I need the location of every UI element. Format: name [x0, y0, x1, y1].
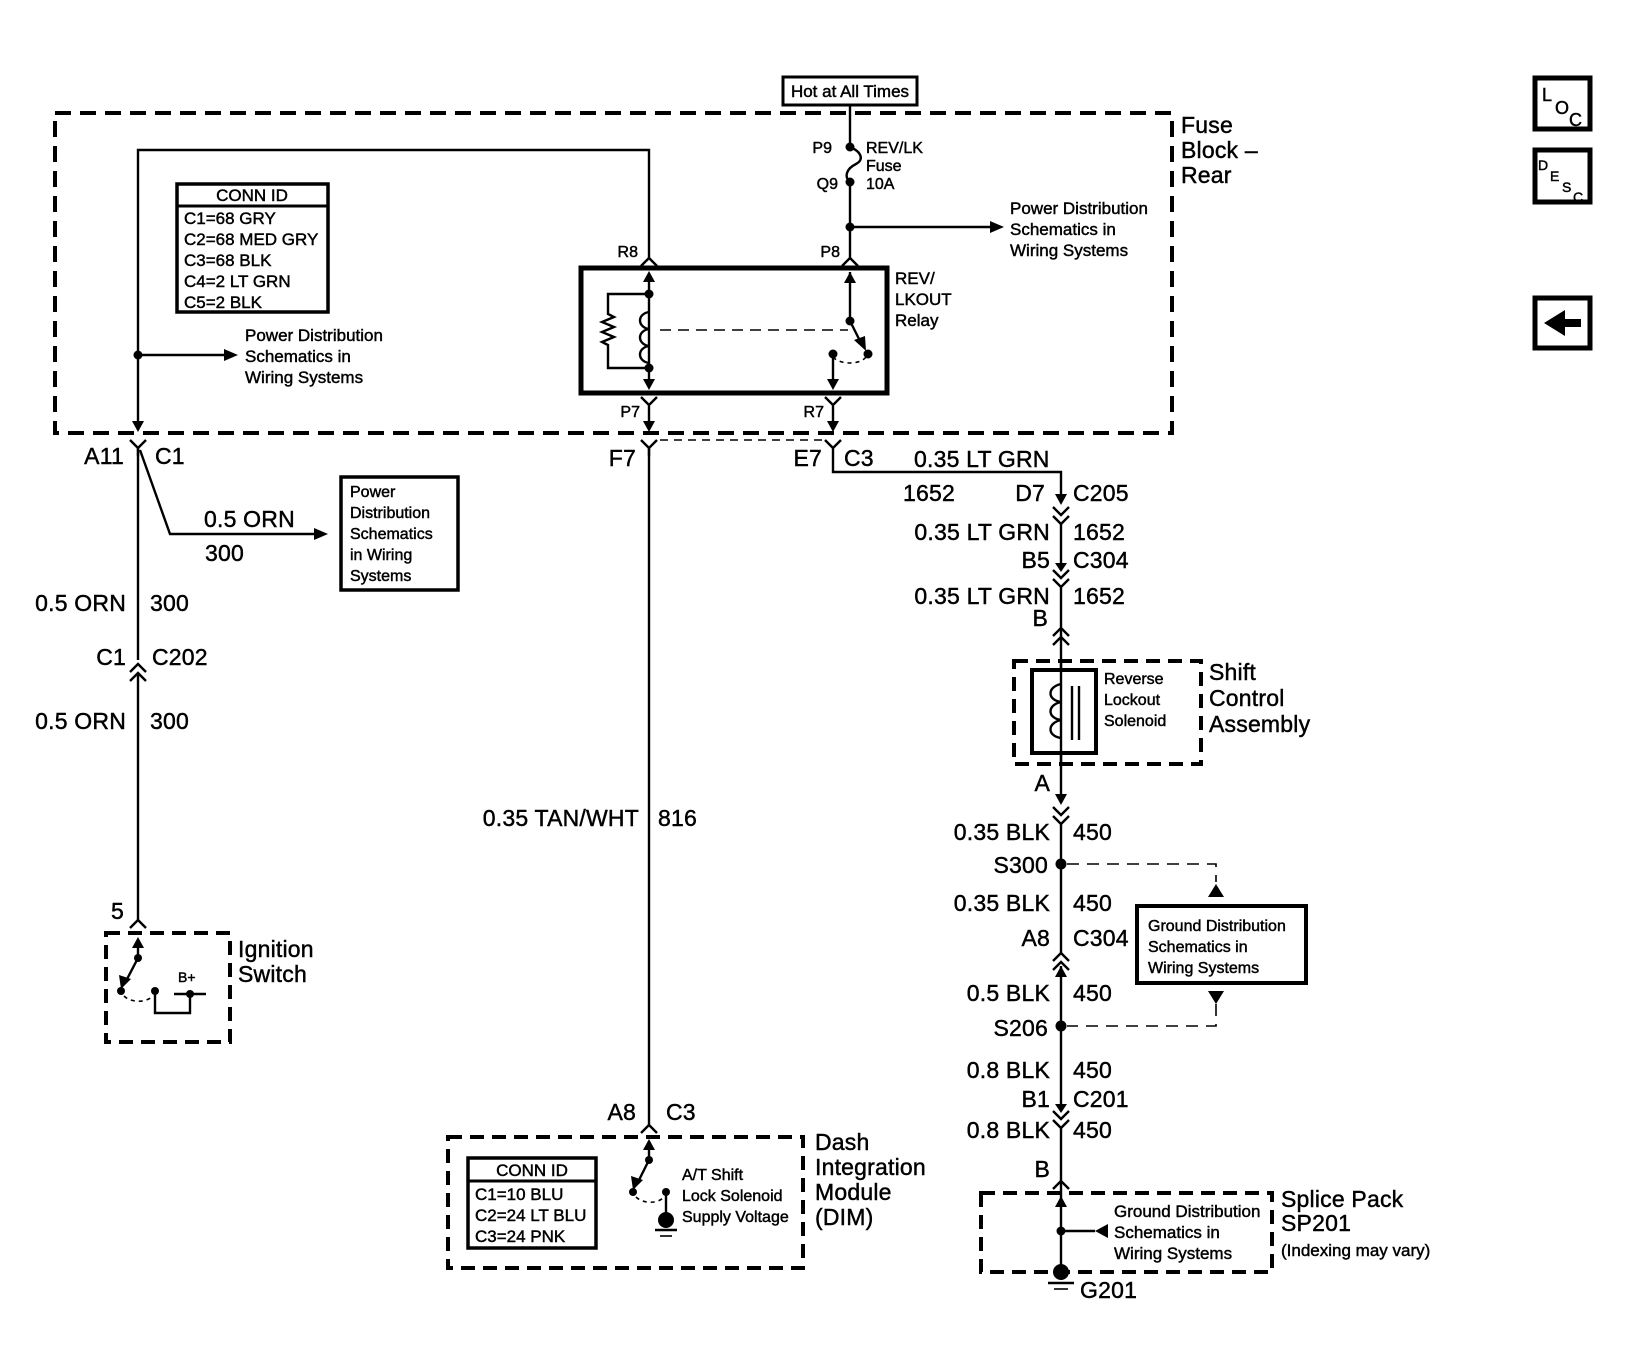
svg-text:C1: C1	[96, 644, 126, 670]
dashed link to S206	[1067, 1004, 1216, 1026]
svg-text:0.8 BLK: 0.8 BLK	[967, 1117, 1051, 1143]
svg-text:CONN ID: CONN ID	[496, 1161, 568, 1180]
fuse block rear dashed box	[55, 113, 1172, 433]
wire 0.35 LT GRN 1652 lower	[1060, 587, 1062, 672]
branch wire 0.5 ORN 300 to reference	[140, 450, 314, 534]
svg-text:Dash: Dash	[815, 1129, 870, 1155]
svg-text:L: L	[1542, 85, 1552, 105]
svg-text:B: B	[1032, 605, 1048, 631]
svg-text:Ignition: Ignition	[238, 936, 314, 962]
svg-text:C1=10 BLU: C1=10 BLU	[475, 1185, 563, 1204]
svg-text:A: A	[1034, 770, 1050, 796]
relay coil bottom node	[645, 364, 654, 373]
ignition switch blade	[125, 958, 138, 983]
svg-text:Rear: Rear	[1181, 162, 1232, 188]
wire 0.35 BLK 450	[1060, 824, 1062, 902]
svg-text:450: 450	[1073, 1057, 1112, 1083]
svg-text:Ground Distribution: Ground Distribution	[1114, 1202, 1260, 1221]
splice S206	[1056, 1021, 1067, 1032]
svg-text:C: C	[1573, 189, 1583, 205]
svg-text:Ground Distribution: Ground Distribution	[1148, 918, 1286, 935]
svg-text:Schematics in: Schematics in	[245, 347, 351, 366]
node Q9	[846, 178, 855, 187]
svg-text:Module: Module	[815, 1179, 892, 1205]
svg-text:10A: 10A	[866, 176, 895, 193]
svg-text:C202: C202	[152, 644, 208, 670]
wire E7 to C205 0.35 LT GRN	[833, 456, 1061, 500]
svg-text:450: 450	[1073, 980, 1112, 1006]
svg-text:C2=24 LT BLU: C2=24 LT BLU	[475, 1206, 586, 1225]
CONN ID table (DIM)	[468, 1158, 596, 1248]
svg-text:Switch: Switch	[238, 961, 307, 987]
relay switch common from P8	[849, 272, 851, 321]
svg-text:P7: P7	[620, 404, 640, 421]
svg-text:Integration: Integration	[815, 1154, 926, 1180]
fuse REV/LK 10A	[847, 147, 861, 182]
svg-text:Fuse: Fuse	[866, 158, 902, 175]
svg-text:B1: B1	[1021, 1086, 1050, 1112]
svg-text:C3: C3	[844, 445, 874, 471]
svg-text:C201: C201	[1073, 1086, 1129, 1112]
B+ feed loop	[155, 991, 190, 1013]
arrow down to R7	[832, 354, 834, 386]
svg-text:Splice Pack: Splice Pack	[1281, 1186, 1404, 1212]
svg-text:0.5 ORN: 0.5 ORN	[35, 590, 126, 616]
svg-text:Power: Power	[350, 484, 396, 501]
dashed actuation line	[660, 329, 848, 331]
svg-text:B5: B5	[1021, 547, 1050, 573]
hot at all times box	[783, 77, 917, 105]
svg-text:C: C	[1569, 110, 1582, 130]
power distribution reference box	[341, 477, 458, 590]
wire from hot box to fuse	[849, 105, 851, 147]
svg-text:Schematics in: Schematics in	[1114, 1223, 1220, 1242]
wire into splice pack	[1060, 1181, 1062, 1272]
wire F7 to DIM 0.35 TAN/WHT 816	[648, 448, 650, 1125]
B+ terminal bar	[174, 993, 206, 995]
svg-text:0.5 BLK: 0.5 BLK	[967, 980, 1051, 1006]
svg-text:Block –: Block –	[1181, 137, 1258, 163]
svg-text:Power Distribution: Power Distribution	[245, 326, 383, 345]
svg-text:F7: F7	[609, 445, 636, 471]
svg-text:A8: A8	[607, 1099, 636, 1125]
svg-text:0.35 TAN/WHT: 0.35 TAN/WHT	[483, 805, 639, 831]
wire 0.5 ORN 300	[137, 448, 139, 660]
dashed link S300 to ground distribution	[1067, 864, 1216, 882]
svg-text:Wiring Systems: Wiring Systems	[1148, 960, 1259, 977]
svg-text:816: 816	[658, 805, 697, 831]
svg-text:450: 450	[1073, 819, 1112, 845]
svg-text:Shift: Shift	[1209, 659, 1256, 685]
ground G201	[1053, 1264, 1069, 1280]
relay open contact node	[864, 350, 873, 359]
relay box REV/LKOUT	[581, 268, 887, 393]
back arrow icon	[1535, 298, 1590, 348]
svg-text:R7: R7	[804, 404, 825, 421]
reverse lockout solenoid box	[1032, 670, 1096, 753]
svg-text:450: 450	[1073, 1117, 1112, 1143]
svg-text:300: 300	[150, 590, 189, 616]
solenoid supply stub	[665, 1192, 667, 1214]
dashed throw arc	[833, 357, 866, 363]
junction node	[846, 223, 855, 232]
svg-text:C3=68 BLK: C3=68 BLK	[184, 251, 272, 270]
svg-text:Relay: Relay	[895, 311, 939, 330]
junction node on A11 feed	[134, 351, 143, 360]
svg-text:Fuse: Fuse	[1181, 112, 1233, 138]
relay closed contact node	[829, 350, 838, 359]
svg-text:R8: R8	[618, 244, 639, 261]
svg-text:1652: 1652	[903, 480, 955, 506]
svg-text:O: O	[1555, 98, 1569, 118]
svg-text:C304: C304	[1073, 547, 1129, 573]
top feed wire	[138, 150, 649, 355]
svg-text:5: 5	[111, 898, 124, 924]
ignition switch dashed box	[106, 933, 230, 1042]
svg-text:Wiring Systems: Wiring Systems	[245, 368, 363, 387]
svg-text:D7: D7	[1015, 480, 1045, 506]
svg-text:E7: E7	[793, 445, 822, 471]
svg-text:300: 300	[150, 708, 189, 734]
DIM switch arrow up	[648, 1143, 650, 1160]
DESC icon	[1535, 150, 1590, 202]
svg-text:Q9: Q9	[817, 176, 838, 193]
svg-text:Solenoid: Solenoid	[1104, 713, 1166, 730]
arrow down to P7	[648, 368, 650, 386]
svg-text:Wiring Systems: Wiring Systems	[1010, 241, 1128, 260]
svg-text:C5=2 BLK: C5=2 BLK	[184, 293, 263, 312]
svg-text:D: D	[1538, 157, 1548, 173]
svg-text:(DIM): (DIM)	[815, 1204, 873, 1230]
inductor coil in relay	[648, 294, 650, 368]
relay coil branch: arrow up at R8 pin	[648, 277, 650, 294]
svg-text:Reverse: Reverse	[1104, 671, 1164, 688]
svg-text:Lock Solenoid: Lock Solenoid	[682, 1188, 783, 1205]
svg-text:LKOUT: LKOUT	[895, 290, 952, 309]
svg-text:0.5 ORN: 0.5 ORN	[204, 506, 295, 532]
svg-text:in Wiring: in Wiring	[350, 547, 412, 564]
svg-text:1652: 1652	[1073, 583, 1125, 609]
svg-text:Control: Control	[1209, 685, 1285, 711]
dashed throw arc	[636, 1197, 664, 1202]
svg-text:0.35 LT GRN: 0.35 LT GRN	[914, 519, 1050, 545]
CONN ID table (fuse block)	[177, 184, 328, 312]
splice pack SP201 dashed box	[981, 1193, 1272, 1272]
shift control assembly dashed box	[1014, 661, 1201, 764]
svg-text:(Indexing may vary): (Indexing may vary)	[1281, 1241, 1430, 1260]
DIM switch pivot node	[645, 1156, 653, 1164]
ignition switch blade contact node	[117, 987, 125, 995]
svg-text:0.35 LT GRN: 0.35 LT GRN	[914, 583, 1050, 609]
ignition switch contact arrow up	[137, 941, 139, 958]
svg-text:300: 300	[205, 540, 244, 566]
svg-text:A11: A11	[84, 443, 124, 469]
relay switch blade	[850, 321, 861, 343]
DIM switch blade	[637, 1160, 649, 1184]
wire fuse to P8	[849, 182, 851, 258]
DIM dashed box	[448, 1137, 803, 1268]
ground distribution reference box	[1137, 906, 1306, 983]
svg-text:C1: C1	[155, 443, 185, 469]
svg-text:0.35 BLK: 0.35 BLK	[954, 890, 1051, 916]
svg-text:B: B	[1034, 1156, 1050, 1182]
ignition switch pivot node	[134, 954, 142, 962]
svg-text:SP201: SP201	[1281, 1210, 1351, 1236]
svg-text:0.8 BLK: 0.8 BLK	[967, 1057, 1051, 1083]
svg-text:S: S	[1562, 179, 1571, 195]
ignition switch B+ contact node	[151, 987, 159, 995]
relay coil top node	[645, 290, 654, 299]
svg-text:P8: P8	[820, 244, 840, 261]
arrow to power distribution reference	[138, 354, 224, 356]
svg-text:Hot at All Times: Hot at All Times	[791, 82, 909, 101]
svg-text:E: E	[1550, 168, 1559, 184]
svg-text:Distribution: Distribution	[350, 505, 430, 522]
svg-text:Power Distribution: Power Distribution	[1010, 199, 1148, 218]
svg-text:Systems: Systems	[350, 568, 411, 585]
svg-text:C205: C205	[1073, 480, 1129, 506]
svg-text:0.5 ORN: 0.5 ORN	[35, 708, 126, 734]
svg-text:S300: S300	[993, 852, 1048, 878]
svg-text:Assembly: Assembly	[1209, 711, 1311, 737]
ground symbol	[655, 1229, 677, 1231]
solenoid core lines	[1071, 686, 1073, 740]
svg-text:B+: B+	[178, 969, 196, 985]
svg-text:A8: A8	[1021, 925, 1050, 951]
svg-text:S206: S206	[993, 1015, 1048, 1041]
svg-text:C3: C3	[666, 1099, 696, 1125]
svg-text:Supply Voltage: Supply Voltage	[682, 1209, 789, 1226]
solenoid coil	[1060, 661, 1062, 764]
node P9	[846, 143, 855, 152]
svg-text:C3=24 PNK: C3=24 PNK	[475, 1227, 566, 1246]
svg-text:Wiring Systems: Wiring Systems	[1114, 1244, 1232, 1263]
svg-text:G201: G201	[1080, 1277, 1137, 1303]
svg-text:P9: P9	[812, 140, 832, 157]
svg-text:0.35 LT GRN: 0.35 LT GRN	[914, 446, 1050, 472]
arrow to ground distribution reference	[1061, 1230, 1095, 1232]
connector C3 dashed tie line	[660, 439, 822, 441]
svg-text:C304: C304	[1073, 925, 1129, 951]
wire 0.35 LT GRN 1652	[1060, 524, 1062, 566]
svg-text:450: 450	[1073, 890, 1112, 916]
svg-text:A/T Shift: A/T Shift	[682, 1167, 744, 1184]
wire A out of solenoid	[1060, 753, 1062, 800]
svg-text:REV/: REV/	[895, 269, 935, 288]
svg-text:Schematics: Schematics	[350, 526, 433, 543]
svg-text:C4=2 LT GRN: C4=2 LT GRN	[184, 272, 291, 291]
DIM blade contact node	[629, 1188, 637, 1196]
dashed throw arc	[124, 996, 153, 1001]
solenoid ground dot	[658, 1212, 674, 1228]
svg-text:1652: 1652	[1073, 519, 1125, 545]
svg-text:C1=68 GRY: C1=68 GRY	[184, 209, 276, 228]
svg-text:Lockout: Lockout	[1104, 692, 1161, 709]
svg-text:Schematics in: Schematics in	[1148, 939, 1248, 956]
resistor in relay	[602, 294, 649, 368]
relay switch pivot node	[846, 317, 855, 326]
svg-text:REV/LK: REV/LK	[866, 140, 923, 157]
svg-text:0.35 BLK: 0.35 BLK	[954, 819, 1051, 845]
svg-text:C2=68 MED GRY: C2=68 MED GRY	[184, 230, 318, 249]
svg-text:Schematics in: Schematics in	[1010, 220, 1116, 239]
wire down to A11	[137, 355, 139, 428]
arrow to power distribution reference	[850, 226, 990, 228]
splice S300	[1056, 859, 1067, 870]
splice junction node	[1057, 1227, 1066, 1236]
LOC icon	[1535, 78, 1590, 129]
svg-text:CONN ID: CONN ID	[216, 186, 288, 205]
DIM solenoid contact node	[662, 1188, 670, 1196]
